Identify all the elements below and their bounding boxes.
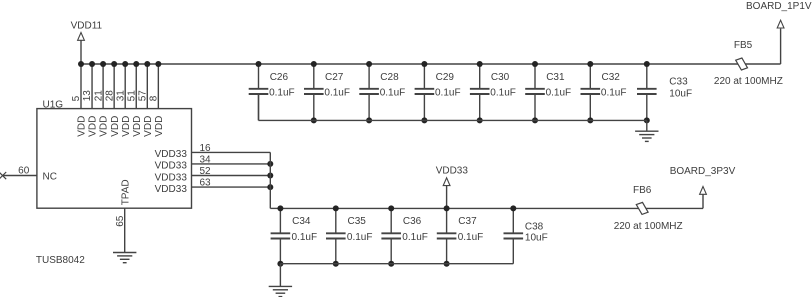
ferrite bead FB5 bbox=[736, 58, 748, 70]
junction dot pin 51 on top bus bbox=[133, 61, 139, 67]
capacitor C31 bbox=[534, 64, 536, 89]
op-amp U1G chip body TUSB8042 power unit bbox=[37, 109, 192, 209]
svg-text:NC: NC bbox=[43, 172, 57, 183]
wire top bus to FB5 right segment bbox=[742, 63, 781, 65]
junction dot pin 8 on top bus bbox=[155, 61, 161, 67]
wire upper ground bus bbox=[259, 119, 647, 121]
junction dot C36 top bbox=[388, 205, 394, 211]
power flag BOARD_3P3V arrow bbox=[700, 187, 707, 195]
svg-text:60: 60 bbox=[18, 166, 30, 177]
junction dot C28 bottom bbox=[366, 117, 372, 123]
junction dot C29 bottom bbox=[421, 117, 427, 123]
junction dot pin 34 on collector bbox=[267, 161, 273, 167]
svg-text:C29: C29 bbox=[436, 72, 455, 83]
wire pin 16 VDD33 bbox=[192, 151, 271, 153]
svg-text:5: 5 bbox=[71, 95, 82, 101]
wire C26 bottom to ground bus corner bbox=[258, 94, 260, 120]
svg-text:C38: C38 bbox=[525, 221, 544, 232]
svg-text:C37: C37 bbox=[458, 216, 477, 227]
junction dot pin 52 on collector bbox=[267, 173, 273, 179]
svg-text:220 at 100MHZ: 220 at 100MHZ bbox=[614, 221, 683, 232]
svg-text:C26: C26 bbox=[270, 72, 289, 83]
svg-text:31: 31 bbox=[115, 90, 126, 102]
wire VDD 1.1V top bus bbox=[81, 63, 742, 65]
svg-text:TPAD: TPAD bbox=[120, 179, 131, 205]
svg-text:21: 21 bbox=[93, 90, 104, 102]
junction dot pin 63 on collector bbox=[267, 184, 273, 190]
wire VDD11 flag to top bus bbox=[80, 40, 82, 64]
svg-text:VDD: VDD bbox=[154, 116, 165, 137]
wire pin 21 stub to top bus bbox=[102, 64, 104, 109]
wire riser to BOARD_3P3V bbox=[702, 194, 704, 208]
capacitor C29 bbox=[423, 64, 425, 89]
ground symbol TPAD bbox=[113, 252, 136, 254]
junction dot pin 13 on top bus bbox=[89, 61, 95, 67]
svg-text:C34: C34 bbox=[292, 216, 311, 227]
svg-text:28: 28 bbox=[104, 90, 115, 102]
junction dot pin 21 on top bus bbox=[100, 61, 106, 67]
capacitor C37 bbox=[446, 208, 448, 233]
junction dot pin 28 on top bus bbox=[111, 61, 117, 67]
svg-text:0.1uF: 0.1uF bbox=[546, 88, 572, 99]
junction dot C27 top bbox=[311, 61, 317, 67]
svg-text:C30: C30 bbox=[491, 72, 510, 83]
junction dot C36 bottom bbox=[388, 261, 394, 267]
junction dot C26 top bbox=[256, 61, 262, 67]
svg-text:220 at 100MHZ: 220 at 100MHZ bbox=[714, 76, 783, 87]
junction dot C32 bottom bbox=[587, 117, 593, 123]
svg-text:BOARD_1P1V: BOARD_1P1V bbox=[746, 1, 812, 12]
junction dot C38 top bbox=[510, 205, 516, 211]
ferrite bead FB6 bbox=[636, 202, 648, 214]
svg-text:13: 13 bbox=[82, 90, 93, 102]
svg-text:0.1uF: 0.1uF bbox=[347, 232, 373, 243]
svg-text:0.1uF: 0.1uF bbox=[380, 88, 406, 99]
svg-text:C28: C28 bbox=[380, 72, 399, 83]
svg-text:C27: C27 bbox=[325, 72, 344, 83]
svg-text:TUSB8042: TUSB8042 bbox=[36, 255, 85, 266]
svg-text:34: 34 bbox=[200, 154, 212, 165]
capacitor C32 bbox=[589, 64, 591, 89]
ground symbol lower rail bbox=[269, 285, 292, 287]
wire pin 34 VDD33 bbox=[192, 163, 271, 165]
svg-text:C31: C31 bbox=[546, 72, 565, 83]
capacitor C26 bbox=[258, 64, 260, 89]
wire pin 52 VDD33 bbox=[192, 175, 271, 177]
capacitor C36 bbox=[390, 208, 392, 233]
capacitor C28 bbox=[368, 64, 370, 89]
junction dot C30 bottom bbox=[477, 117, 483, 123]
junction dot C37 top bbox=[444, 205, 450, 211]
junction dot pin 5 on top bus bbox=[78, 61, 84, 67]
junction dot C37 bottom bbox=[444, 261, 450, 267]
svg-text:0.1uF: 0.1uF bbox=[324, 88, 350, 99]
svg-text:0.1uF: 0.1uF bbox=[402, 232, 428, 243]
wire lower bus to FB6 right segment bbox=[642, 207, 703, 209]
svg-text:52: 52 bbox=[200, 166, 212, 177]
svg-text:10uF: 10uF bbox=[525, 233, 548, 244]
wire VDD33 flag to lower bus bbox=[446, 186, 448, 209]
capacitor C30 bbox=[479, 64, 481, 89]
svg-text:0.1uF: 0.1uF bbox=[601, 88, 627, 99]
wire pin 13 stub to top bus bbox=[91, 64, 93, 109]
wire pin 63 VDD33 bbox=[192, 186, 271, 188]
wire riser to BOARD_1P1V bbox=[780, 29, 782, 64]
junction dot C29 top bbox=[421, 61, 427, 67]
svg-text:0.1uF: 0.1uF bbox=[458, 232, 484, 243]
wire VDD 3.3V lower bus bbox=[280, 207, 642, 209]
svg-text:C35: C35 bbox=[348, 216, 367, 227]
power flag VDD33 arrow bbox=[443, 178, 450, 186]
svg-text:VDD: VDD bbox=[77, 116, 88, 137]
capacitor C35 bbox=[335, 208, 337, 233]
svg-text:U1G: U1G bbox=[43, 99, 64, 110]
svg-text:VDD33: VDD33 bbox=[155, 149, 188, 160]
wire pin 31 stub to top bus bbox=[124, 64, 126, 109]
svg-text:0.1uF: 0.1uF bbox=[435, 88, 461, 99]
wire pin 57 stub to top bus bbox=[146, 64, 148, 109]
junction dot C33 top bbox=[644, 61, 650, 67]
power flag BOARD_1P1V arrow bbox=[777, 20, 784, 28]
junction dot C33 bottom bbox=[644, 117, 650, 123]
svg-text:10uF: 10uF bbox=[669, 89, 692, 100]
svg-text:VDD33: VDD33 bbox=[155, 172, 188, 183]
wire lower ground bus bbox=[280, 263, 513, 265]
junction dot C31 top bbox=[532, 61, 538, 67]
junction dot C30 top bbox=[477, 61, 483, 67]
svg-text:VDD: VDD bbox=[110, 116, 121, 137]
wire pin 8 stub to top bus bbox=[157, 64, 159, 109]
svg-text:VDD33: VDD33 bbox=[155, 161, 188, 172]
no-connect X on pin 60 bbox=[0, 172, 6, 179]
capacitor C33 bbox=[646, 64, 648, 89]
svg-text:51: 51 bbox=[126, 90, 137, 102]
svg-text:FB5: FB5 bbox=[734, 40, 753, 51]
capacitor C27 bbox=[313, 64, 315, 89]
svg-text:16: 16 bbox=[200, 143, 212, 154]
wire pin 5 stub to top bus bbox=[80, 64, 82, 109]
svg-text:VDD: VDD bbox=[88, 116, 99, 137]
wire pin 65 TPAD to ground bbox=[124, 208, 126, 252]
wire VDD33 collector to lower bus bbox=[270, 207, 280, 209]
wire pin 28 stub to top bus bbox=[113, 64, 115, 109]
svg-text:8: 8 bbox=[149, 95, 160, 101]
svg-text:VDD: VDD bbox=[143, 116, 154, 137]
svg-text:VDD11: VDD11 bbox=[71, 20, 103, 31]
junction dot C34 top bbox=[277, 205, 283, 211]
wire VDD33 collector vertical bbox=[269, 152, 271, 208]
svg-text:VDD: VDD bbox=[132, 116, 143, 137]
wire C33 to ground stem bbox=[646, 120, 648, 131]
svg-text:BOARD_3P3V: BOARD_3P3V bbox=[670, 166, 736, 177]
svg-text:C36: C36 bbox=[403, 216, 422, 227]
wire C34 to ground stem bbox=[279, 264, 281, 287]
wire pin 51 stub to top bus bbox=[135, 64, 137, 109]
junction dot pin 31 on top bus bbox=[122, 61, 128, 67]
svg-text:0.1uF: 0.1uF bbox=[490, 88, 516, 99]
svg-text:0.1uF: 0.1uF bbox=[292, 232, 318, 243]
svg-text:VDD: VDD bbox=[99, 116, 110, 137]
svg-text:VDD: VDD bbox=[121, 116, 132, 137]
svg-text:65: 65 bbox=[115, 215, 126, 227]
svg-text:C33: C33 bbox=[669, 77, 688, 88]
junction dot C31 bottom bbox=[532, 117, 538, 123]
junction dot pin 57 on top bus bbox=[144, 61, 150, 67]
junction dot C35 top bbox=[333, 205, 339, 211]
junction dot C32 top bbox=[587, 61, 593, 67]
svg-text:C32: C32 bbox=[602, 72, 621, 83]
capacitor C38 bbox=[512, 208, 514, 233]
capacitor C34 bbox=[279, 208, 281, 233]
svg-text:57: 57 bbox=[138, 90, 149, 102]
junction dot C35 bottom bbox=[333, 261, 339, 267]
junction dot C28 top bbox=[366, 61, 372, 67]
svg-text:63: 63 bbox=[200, 178, 212, 189]
junction dot C34 bottom bbox=[277, 261, 283, 267]
svg-text:FB6: FB6 bbox=[633, 185, 652, 196]
svg-text:VDD33: VDD33 bbox=[436, 166, 469, 177]
junction dot C27 bottom bbox=[311, 117, 317, 123]
power flag VDD11 arrow bbox=[78, 33, 85, 41]
svg-text:0.1uF: 0.1uF bbox=[269, 88, 295, 99]
wire pin 60 NC bbox=[3, 175, 37, 177]
svg-text:VDD33: VDD33 bbox=[155, 184, 188, 195]
ground symbol upper rail bbox=[635, 130, 658, 132]
